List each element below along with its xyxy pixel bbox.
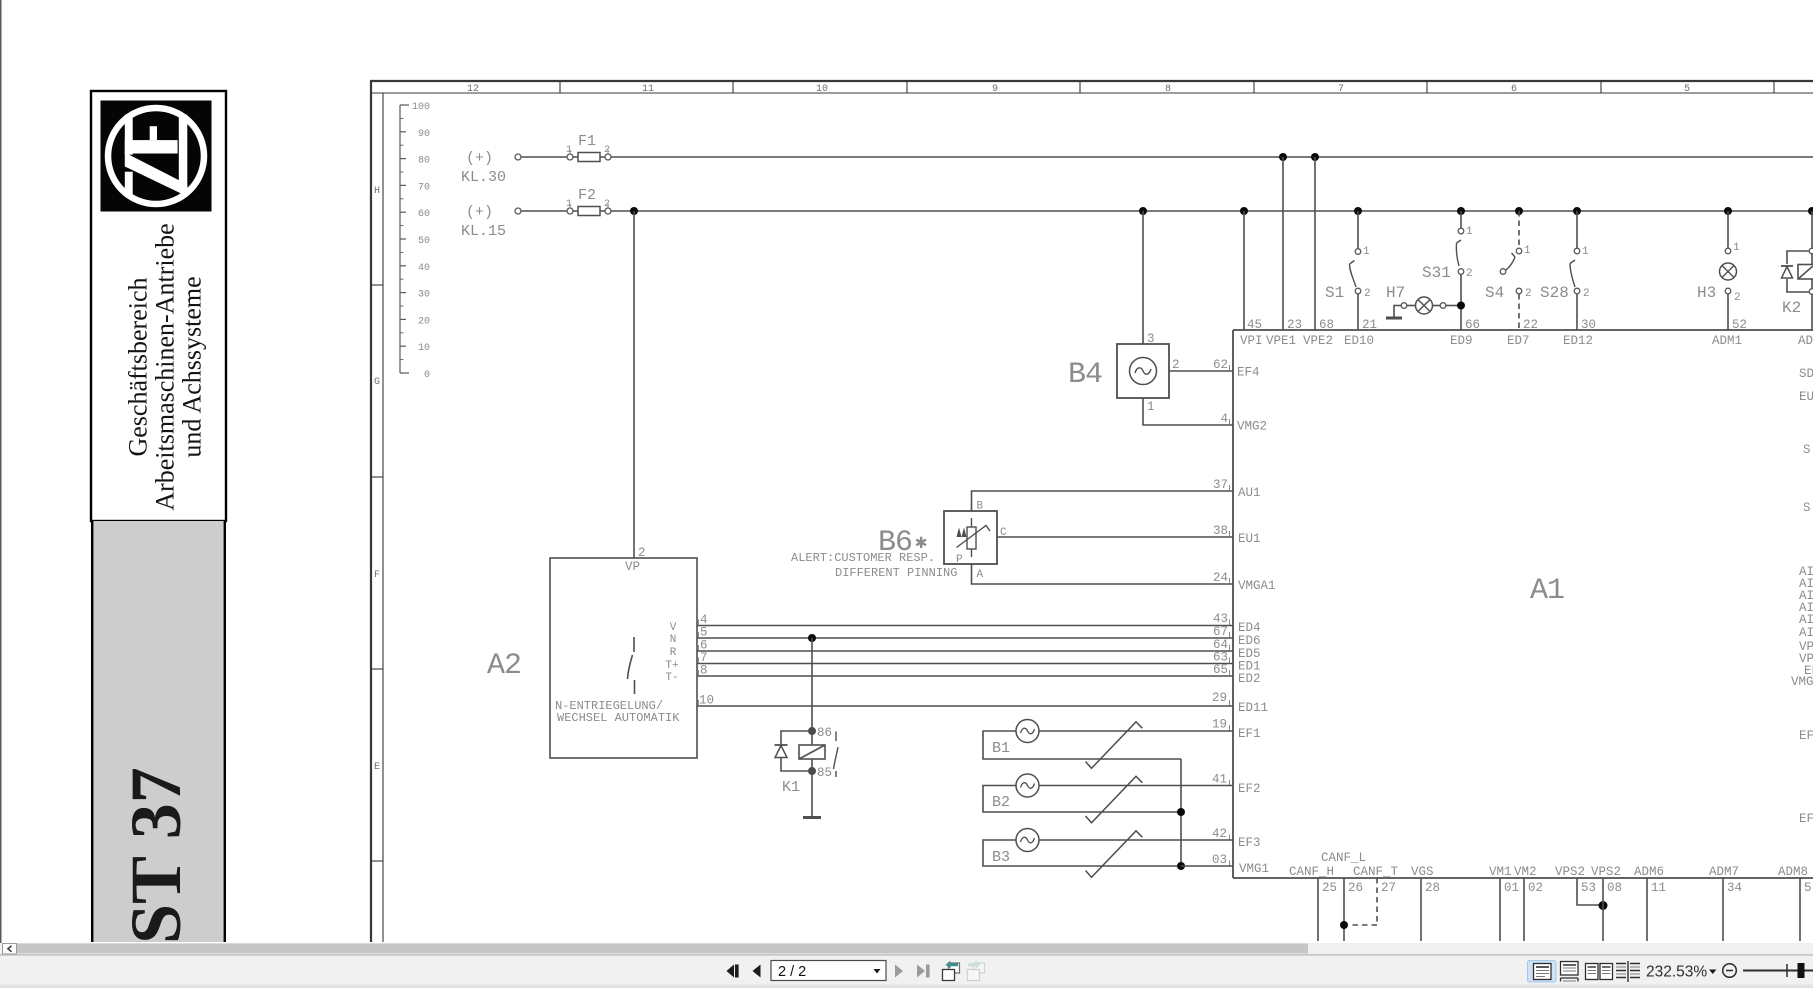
A1 bottom pin labels xyxy=(1289,851,1808,879)
svg-text:S28: S28 xyxy=(1540,284,1569,302)
svg-text:9: 9 xyxy=(992,84,998,95)
viewer chrome: horizontal scrollbar xyxy=(0,943,1813,956)
sensor B1 xyxy=(983,720,1233,769)
wire pin 57 ADM8 xyxy=(1799,878,1801,941)
junction VPI feed xyxy=(1240,207,1248,215)
junction H3 feed xyxy=(1724,207,1732,215)
wire sensor return bus xyxy=(1180,759,1182,866)
grid row letters xyxy=(374,186,380,773)
wire A2 pin5 to A1 ED6 xyxy=(697,637,1233,639)
sidebar rotated division text xyxy=(124,223,207,510)
wire return to A1 VMG1 xyxy=(1181,865,1233,867)
junction B2 return xyxy=(1177,808,1185,816)
svg-text:08: 08 xyxy=(1607,881,1622,895)
svg-text:10: 10 xyxy=(418,343,430,354)
junction B4 feed xyxy=(1139,207,1147,215)
wire pin 01 VM1 xyxy=(1499,878,1501,941)
wire KL.30 to fuse F1 xyxy=(521,156,567,158)
svg-text:10: 10 xyxy=(699,694,714,708)
icon next page xyxy=(895,965,903,978)
icon previous view xyxy=(943,961,960,981)
icon single page view xyxy=(1528,961,1557,983)
svg-text:ADM8: ADM8 xyxy=(1778,865,1808,879)
ECU A1 xyxy=(1233,330,1813,878)
svg-text:100: 100 xyxy=(412,102,430,113)
diode K2 xyxy=(1781,265,1793,267)
wire B6 pin B to A1 AU1 xyxy=(972,491,1234,511)
svg-text:6: 6 xyxy=(1511,84,1517,95)
A1 left pin names xyxy=(1237,366,1276,877)
window left edge line xyxy=(0,0,2,954)
relay K2 xyxy=(1781,211,1813,330)
junction K1 coil feed xyxy=(808,634,816,642)
svg-text:N: N xyxy=(670,634,677,646)
svg-text:F1: F1 xyxy=(578,133,596,150)
junction S4 feed xyxy=(1515,207,1523,215)
svg-text:22: 22 xyxy=(1523,318,1538,332)
svg-text:WECHSEL AUTOMATIK: WECHSEL AUTOMATIK xyxy=(557,711,680,725)
svg-text:SD: SD xyxy=(1799,367,1813,381)
wire pin 28 VGS xyxy=(1420,878,1422,941)
svg-text:67: 67 xyxy=(1213,625,1228,639)
svg-text:R: R xyxy=(670,647,677,659)
terminal 86 xyxy=(808,727,815,734)
svg-text:VPE2: VPE2 xyxy=(1303,334,1333,348)
junction S31 feed xyxy=(1457,207,1465,215)
svg-text:VPI: VPI xyxy=(1240,334,1263,348)
svg-text:CANF_T: CANF_T xyxy=(1353,865,1399,879)
svg-text:VMG2: VMG2 xyxy=(1237,420,1267,434)
icon next view xyxy=(968,961,985,981)
svg-text:S: S xyxy=(1803,501,1811,515)
svg-text:Geschäftsbereich: Geschäftsbereich xyxy=(124,277,153,456)
svg-text:12: 12 xyxy=(467,84,479,95)
svg-text:ED4: ED4 xyxy=(1238,621,1261,635)
svg-text:(+): (+) xyxy=(466,150,493,167)
wire B2 to A1 EF2 xyxy=(1039,785,1233,787)
svg-text:VMGA1: VMGA1 xyxy=(1238,579,1276,593)
ground xyxy=(803,816,821,819)
svg-text:B: B xyxy=(977,501,984,513)
svg-text:20: 20 xyxy=(418,316,430,327)
svg-text:4: 4 xyxy=(1220,412,1228,426)
svg-text:K2: K2 xyxy=(1782,299,1801,317)
wire K1 to ground xyxy=(811,774,813,817)
A2 pin letters xyxy=(665,622,678,684)
svg-text:24: 24 xyxy=(1213,571,1228,585)
svg-text:2: 2 xyxy=(1172,358,1180,372)
wire A2 pin7 to A1 ED1 xyxy=(697,663,1233,665)
svg-text:VPS2: VPS2 xyxy=(1591,865,1621,879)
ZF title block sidebar xyxy=(91,91,226,944)
svg-text:86: 86 xyxy=(817,726,832,740)
svg-text:5: 5 xyxy=(1684,84,1690,95)
wire B1 to A1 EF1 xyxy=(1039,730,1233,732)
wire KL.15 to A2 pin 2 xyxy=(633,211,635,558)
wire KL.15 to B4 pin 3 xyxy=(1142,211,1144,344)
svg-text:1: 1 xyxy=(1582,246,1589,258)
control unit A2 xyxy=(487,546,697,758)
svg-text:01: 01 xyxy=(1504,881,1519,895)
A1 right edge clipped pin names xyxy=(1791,367,1813,826)
wire H7 to ground xyxy=(1394,306,1401,317)
svg-text:53: 53 xyxy=(1581,881,1596,895)
svg-text:43: 43 xyxy=(1213,612,1228,626)
svg-text:45: 45 xyxy=(1247,318,1262,332)
svg-text:A1: A1 xyxy=(1530,574,1564,608)
svg-text:26: 26 xyxy=(1348,881,1363,895)
wire A2 pin6 to A1 ED5 xyxy=(697,650,1233,652)
junction B3 return xyxy=(1177,862,1185,870)
svg-text:ED10: ED10 xyxy=(1344,334,1374,348)
junction S31 H7 xyxy=(1457,302,1465,310)
svg-text:27: 27 xyxy=(1381,881,1396,895)
svg-text:38: 38 xyxy=(1213,524,1228,538)
svg-text:1: 1 xyxy=(1733,242,1740,254)
svg-text:02: 02 xyxy=(1528,881,1543,895)
icon continuous facing view xyxy=(1616,961,1640,982)
contact lever right xyxy=(834,732,839,778)
svg-text:85: 85 xyxy=(817,766,832,780)
wire pin 11 ADM6 xyxy=(1646,878,1648,941)
wire A2 pin4 to A1 ED4 xyxy=(697,625,1233,627)
svg-text:68: 68 xyxy=(1319,318,1334,332)
svg-text:(+): (+) xyxy=(466,204,493,221)
wire pin 08 VPS2 xyxy=(1602,878,1604,941)
svg-text:66: 66 xyxy=(1465,318,1480,332)
junction A2 feed xyxy=(630,207,638,215)
junction S1 feed xyxy=(1354,207,1362,215)
lamp H3 xyxy=(1697,211,1741,330)
svg-text:7: 7 xyxy=(1338,84,1344,95)
svg-text:F2: F2 xyxy=(578,187,596,204)
svg-text:AU1: AU1 xyxy=(1238,486,1261,500)
svg-text:ED9: ED9 xyxy=(1450,334,1473,348)
scale ruler numbers xyxy=(412,102,430,381)
svg-text:B2: B2 xyxy=(992,794,1010,811)
svg-text:P: P xyxy=(956,554,963,566)
zoom out button xyxy=(1723,964,1737,978)
svg-text:AI: AI xyxy=(1799,613,1813,627)
svg-text:80: 80 xyxy=(418,156,430,167)
wire B6 pin C to A1 EU1 xyxy=(997,536,1233,538)
svg-text:VM1: VM1 xyxy=(1489,865,1512,879)
svg-text:VPE1: VPE1 xyxy=(1266,334,1296,348)
svg-text:B4: B4 xyxy=(1068,358,1102,392)
svg-text:EF2: EF2 xyxy=(1238,782,1261,796)
switch S4 xyxy=(1485,211,1532,330)
wire B4 pin 1 to A1 VMG2 xyxy=(1143,398,1233,425)
svg-text:KL.15: KL.15 xyxy=(461,223,506,240)
icon facing view xyxy=(1586,964,1613,980)
svg-text:AD: AD xyxy=(1798,334,1813,348)
svg-text:ALERT:CUSTOMER RESP.: ALERT:CUSTOMER RESP. xyxy=(791,551,935,565)
A1 top pin numbers xyxy=(1247,318,1747,332)
wire VPE1 drop xyxy=(1282,157,1284,330)
svg-text:1: 1 xyxy=(1524,245,1531,257)
svg-text:1: 1 xyxy=(1466,226,1473,238)
switch symbol inside A2 xyxy=(628,637,635,694)
svg-text:F: F xyxy=(374,570,380,581)
svg-text:T+: T+ xyxy=(665,660,678,672)
svg-text:2: 2 xyxy=(1364,288,1371,300)
svg-text:42: 42 xyxy=(1212,827,1227,841)
svg-text:EF4: EF4 xyxy=(1237,366,1260,380)
junction VPE2 xyxy=(1311,153,1319,161)
pressure arrows xyxy=(957,528,962,538)
wire A2 pin8 to A1 ED2 xyxy=(697,675,1233,677)
terminal KL.30 xyxy=(515,154,521,160)
svg-text:232.53%: 232.53% xyxy=(1646,964,1707,981)
variable arrow B3 xyxy=(1086,831,1143,878)
element xyxy=(971,518,973,527)
fuse F2 xyxy=(566,187,611,216)
svg-text:19: 19 xyxy=(1212,718,1227,732)
grid column ticks xyxy=(560,81,1774,93)
svg-text:37: 37 xyxy=(1213,478,1228,492)
A2 pin ticks xyxy=(698,620,700,706)
sidebar upper white box xyxy=(91,91,226,521)
wire VPE2 drop xyxy=(1314,157,1316,330)
fuse F1 xyxy=(566,133,611,162)
svg-text:1: 1 xyxy=(1363,246,1370,258)
wire pin 25 CANF_H xyxy=(1317,878,1319,941)
wire KL.15 to fuse F2 xyxy=(521,210,567,212)
coil xyxy=(811,734,813,745)
sensor B3 xyxy=(983,829,1233,878)
grid row ticks xyxy=(371,285,383,861)
svg-text:CANF_L: CANF_L xyxy=(1321,851,1366,865)
junction VPE1 xyxy=(1279,153,1287,161)
svg-text:5: 5 xyxy=(1804,881,1812,895)
wire B4 pin 2 to A1 EF4 xyxy=(1169,370,1233,372)
lamp H7 xyxy=(1386,284,1461,318)
switch S28 xyxy=(1540,211,1590,330)
svg-text:KL.30: KL.30 xyxy=(461,169,506,186)
svg-text:VMG: VMG xyxy=(1791,675,1813,689)
sensor B2 xyxy=(983,774,1233,823)
svg-text:5: 5 xyxy=(700,626,708,640)
svg-text:ADM6: ADM6 xyxy=(1634,865,1664,879)
svg-text:EF1: EF1 xyxy=(1238,727,1261,741)
svg-text:S31: S31 xyxy=(1422,264,1451,282)
wire pin 02 VM2 xyxy=(1523,878,1525,941)
svg-text:50: 50 xyxy=(418,236,430,247)
svg-text:8: 8 xyxy=(1165,84,1171,95)
svg-text:Arbeitsmaschinen-Antriebe: Arbeitsmaschinen-Antriebe xyxy=(151,223,180,510)
diode xyxy=(775,744,788,746)
wire junction to K1 xyxy=(811,638,813,731)
svg-text:30: 30 xyxy=(418,290,430,301)
svg-text:62: 62 xyxy=(1213,358,1228,372)
svg-text:40: 40 xyxy=(418,263,430,274)
drawing sheet border frame xyxy=(370,81,1813,942)
svg-text:03: 03 xyxy=(1212,853,1227,867)
A1 left pin ticks xyxy=(1229,365,1231,866)
coil K2 xyxy=(1811,254,1813,265)
svg-text:ST 37: ST 37 xyxy=(116,767,196,944)
svg-text:A2: A2 xyxy=(487,649,521,683)
svg-text:ED7: ED7 xyxy=(1507,334,1530,348)
svg-text:S1: S1 xyxy=(1325,284,1344,302)
viewer chrome: bottom toolbar xyxy=(0,956,1813,988)
svg-text:52: 52 xyxy=(1732,318,1747,332)
junction pin 08 xyxy=(1599,901,1608,910)
wire A2 pin10 to A1 ED11 xyxy=(697,705,1233,707)
svg-text:EU1: EU1 xyxy=(1238,532,1261,546)
svg-text:30: 30 xyxy=(1581,318,1596,332)
svg-text:VP: VP xyxy=(625,560,640,574)
icon continuous view xyxy=(1561,962,1579,982)
svg-text:ADM1: ADM1 xyxy=(1712,334,1742,348)
svg-text:ED12: ED12 xyxy=(1563,334,1593,348)
sensor B4 xyxy=(1068,211,1180,398)
icon first page xyxy=(727,965,735,978)
svg-text:und Achssysteme: und Achssysteme xyxy=(178,276,207,457)
wire pin 26 CANF_L xyxy=(1343,878,1345,941)
svg-text:H3: H3 xyxy=(1697,284,1716,302)
svg-text:ED2: ED2 xyxy=(1238,672,1261,686)
svg-text:V: V xyxy=(670,622,677,634)
scale ruler xyxy=(400,105,409,373)
svg-text:AI: AI xyxy=(1799,626,1813,640)
A2 pin numbers xyxy=(699,613,714,708)
sensor B6 xyxy=(791,501,1007,582)
svg-text:G: G xyxy=(374,377,380,388)
switch S1 xyxy=(1325,211,1371,330)
svg-text:S: S xyxy=(1803,443,1811,457)
svg-text:2: 2 xyxy=(1734,292,1741,304)
svg-text:T-: T- xyxy=(665,672,678,684)
zoom dropdown caret xyxy=(1709,970,1717,975)
wire pin 34 ADM7 xyxy=(1722,878,1724,941)
svg-text:90: 90 xyxy=(418,129,430,140)
A1 top pin names xyxy=(1240,334,1813,348)
variable arrow B1 xyxy=(1086,722,1143,769)
svg-text:11: 11 xyxy=(642,84,654,95)
svg-text:K1: K1 xyxy=(782,779,800,796)
svg-text:23: 23 xyxy=(1287,318,1302,332)
svg-text:1: 1 xyxy=(1147,400,1155,414)
ZF logo xyxy=(101,101,212,212)
svg-text:60: 60 xyxy=(418,209,430,220)
svg-text:VM2: VM2 xyxy=(1514,865,1537,879)
terminal KL.15 xyxy=(515,208,521,214)
wire pin 53 VPS2 jog xyxy=(1577,878,1603,905)
svg-text:ADM7: ADM7 xyxy=(1709,865,1739,879)
svg-text:A: A xyxy=(977,569,984,581)
terminal 85 xyxy=(808,767,815,774)
junction pin 26 xyxy=(1340,921,1348,929)
svg-text:21: 21 xyxy=(1362,318,1377,332)
svg-text:VGS: VGS xyxy=(1411,865,1434,879)
A1 bottom pin numbers xyxy=(1322,881,1812,895)
svg-text:34: 34 xyxy=(1727,881,1742,895)
svg-text:B1: B1 xyxy=(992,740,1010,757)
wire KL.15 rail xyxy=(611,210,1813,212)
ground xyxy=(1386,317,1402,320)
variable arrow B2 xyxy=(1086,776,1143,823)
wire B3 to A1 EF3 xyxy=(1039,839,1233,841)
wire KL.30 rail xyxy=(611,156,1813,158)
svg-text:8: 8 xyxy=(700,664,708,678)
wire B6 pin A to A1 VMGA1 xyxy=(972,564,1234,584)
zoom slider xyxy=(1743,970,1813,972)
svg-text:CANF_H: CANF_H xyxy=(1289,865,1334,879)
svg-text:2 / 2: 2 / 2 xyxy=(778,964,806,980)
svg-text:70: 70 xyxy=(418,182,430,193)
svg-text:0: 0 xyxy=(424,370,430,381)
svg-text:EF: EF xyxy=(1799,729,1813,743)
wire pin 27 CANF_T dashed xyxy=(1352,878,1377,925)
junction K2 feed xyxy=(1808,207,1813,215)
svg-text:VPS2: VPS2 xyxy=(1555,865,1585,879)
relay K1 xyxy=(775,726,839,796)
svg-text:EF: EF xyxy=(1799,812,1813,826)
svg-text:2: 2 xyxy=(1466,268,1473,280)
svg-text:H: H xyxy=(374,186,380,197)
node KL.30 supply xyxy=(461,150,506,186)
grid column numbers xyxy=(467,84,1690,95)
svg-text:2: 2 xyxy=(638,546,646,560)
svg-text:H7: H7 xyxy=(1386,284,1405,302)
svg-text:28: 28 xyxy=(1425,881,1440,895)
svg-text:VMG1: VMG1 xyxy=(1239,862,1269,876)
svg-text:29: 29 xyxy=(1212,691,1227,705)
svg-text:25: 25 xyxy=(1322,881,1337,895)
svg-text:E: E xyxy=(374,762,380,773)
icon last page xyxy=(917,965,925,978)
svg-text:EU: EU xyxy=(1799,390,1813,404)
svg-text:2: 2 xyxy=(1525,288,1532,300)
svg-text:S4: S4 xyxy=(1485,284,1504,302)
svg-text:EF3: EF3 xyxy=(1238,836,1261,850)
node KL.15 supply xyxy=(461,204,506,240)
svg-text:10: 10 xyxy=(816,84,828,95)
page number box xyxy=(771,961,886,981)
svg-text:ED6: ED6 xyxy=(1238,634,1261,648)
svg-text:65: 65 xyxy=(1213,663,1228,677)
svg-text:11: 11 xyxy=(1651,881,1666,895)
wire VPI drop xyxy=(1243,211,1245,330)
icon previous page xyxy=(753,965,761,978)
svg-text:ED11: ED11 xyxy=(1238,701,1268,715)
svg-text:2: 2 xyxy=(1583,288,1590,300)
svg-text:41: 41 xyxy=(1212,773,1227,787)
suppressor diode branch xyxy=(781,731,809,771)
switch S31 xyxy=(1422,211,1473,330)
sidebar lower gray box xyxy=(93,521,225,942)
svg-text:B3: B3 xyxy=(992,849,1010,866)
svg-text:DIFFERENT PINNING: DIFFERENT PINNING xyxy=(835,566,957,580)
junction S28 feed xyxy=(1573,207,1581,215)
A1 left pin numbers xyxy=(1212,358,1228,867)
